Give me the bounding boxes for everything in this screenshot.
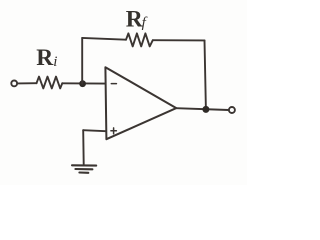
label Ri (36, 45, 57, 71)
svg-text:i: i (53, 54, 57, 70)
wire ground vertical (82, 130, 85, 164)
wire op-amp output (176, 108, 228, 110)
node A (junction dot input/feedback) (79, 80, 86, 87)
input terminal (open circle) (11, 81, 17, 87)
svg-text:f: f (142, 15, 148, 31)
wire feedback right vertical (205, 40, 206, 109)
resistor Ri (37, 77, 63, 89)
wire feedback left vertical (81, 38, 83, 84)
output terminal (open circle) (229, 107, 235, 113)
op-amp U1 triangle (105, 67, 176, 139)
wire Ri to op-amp inverting input (62, 82, 105, 84)
pin minus (inverting input sign) (111, 83, 116, 85)
label Rf (126, 7, 148, 33)
ground (72, 165, 96, 173)
wire feedback top left segment (82, 38, 126, 40)
wire feedback top right segment (153, 39, 205, 41)
wire input terminal to Ri (18, 82, 37, 84)
node B (output junction dot) (202, 106, 209, 113)
pin plus (non-inverting input sign) (111, 128, 117, 134)
svg-text:R: R (36, 45, 54, 71)
resistor Rf (126, 33, 153, 46)
wire ground to non-inverting input (83, 130, 106, 131)
